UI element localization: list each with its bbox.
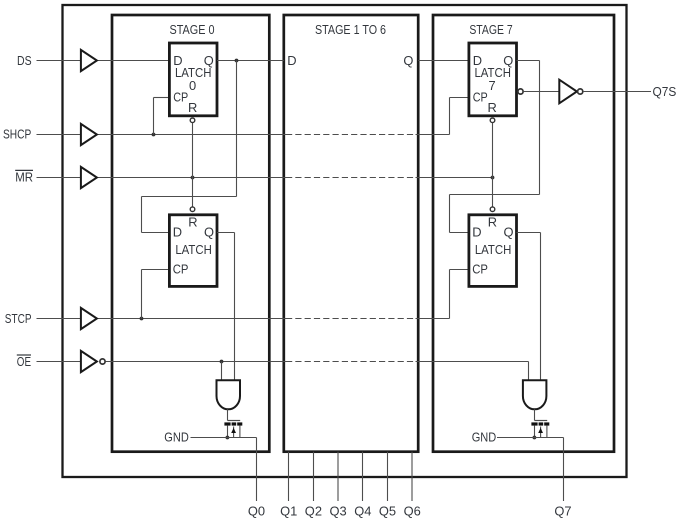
svg-text:Q5: Q5 — [379, 503, 396, 518]
svg-text:GND: GND — [164, 429, 189, 444]
svg-text:R: R — [188, 100, 197, 115]
svg-text:CP: CP — [472, 261, 488, 276]
svg-text:7: 7 — [489, 78, 496, 93]
svg-text:D: D — [472, 225, 481, 240]
svg-text:STAGE 1 TO 6: STAGE 1 TO 6 — [315, 22, 386, 37]
svg-text:Q2: Q2 — [305, 503, 322, 518]
svg-text:STAGE 7: STAGE 7 — [469, 22, 512, 37]
svg-text:Q1: Q1 — [280, 503, 297, 518]
svg-text:STCP: STCP — [5, 311, 32, 326]
svg-text:D: D — [287, 53, 296, 68]
svg-text:LATCH: LATCH — [475, 242, 512, 257]
svg-text:CP: CP — [173, 90, 188, 105]
svg-text:D: D — [173, 225, 182, 240]
svg-text:Q6: Q6 — [404, 503, 421, 518]
svg-text:DS: DS — [17, 53, 32, 68]
svg-text:Q: Q — [503, 225, 513, 240]
svg-text:Q7S: Q7S — [653, 84, 677, 99]
svg-text:Q4: Q4 — [354, 503, 371, 518]
svg-text:CP: CP — [173, 261, 189, 276]
svg-text:R: R — [488, 214, 497, 229]
svg-text:Q: Q — [403, 53, 413, 68]
svg-text:STAGE 0: STAGE 0 — [170, 22, 215, 37]
svg-text:Q3: Q3 — [329, 503, 346, 518]
svg-text:Q7: Q7 — [554, 503, 571, 518]
svg-text:SHCP: SHCP — [3, 126, 31, 141]
svg-text:LATCH: LATCH — [175, 242, 212, 257]
svg-text:0: 0 — [189, 78, 196, 93]
svg-text:Q: Q — [204, 225, 214, 240]
svg-text:MR: MR — [15, 169, 33, 184]
svg-text:GND: GND — [472, 429, 497, 444]
svg-text:R: R — [487, 100, 496, 115]
svg-text:Q0: Q0 — [248, 503, 265, 518]
svg-text:CP: CP — [473, 90, 488, 105]
svg-text:R: R — [188, 214, 197, 229]
svg-text:OE: OE — [17, 354, 32, 369]
